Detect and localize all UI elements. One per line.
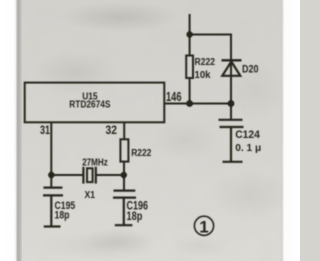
ground (C195): [44, 225, 61, 227]
wire C195 to ground: [50, 195, 52, 226]
svg-text:18p: 18p: [127, 211, 143, 223]
capacitor C196: [114, 190, 136, 192]
svg-text:R222: R222: [131, 147, 151, 159]
svg-text:R222: R222: [195, 57, 216, 68]
wire node146 down to C124: [230, 104, 232, 120]
svg-text:18p: 18p: [55, 210, 70, 222]
junction node pin31-C195: [48, 172, 54, 178]
svg-text:10k: 10k: [195, 69, 211, 81]
svg-text:X1: X1: [85, 190, 96, 201]
wire C196 to ground: [123, 198, 125, 225]
wire pin31 vertical: [50, 123, 52, 188]
crystal X1: [82, 167, 84, 184]
svg-text:C124: C124: [235, 129, 260, 141]
ground (C196): [115, 224, 133, 226]
IC U15 box: [25, 83, 165, 123]
wire pin32 vertical to R222: [123, 123, 125, 141]
wire C124 to ground: [230, 127, 232, 162]
svg-text:32: 32: [106, 123, 118, 137]
junction node 146-D20: [228, 100, 235, 107]
wire between R222 and node 146: [189, 77, 191, 104]
ground (C124): [223, 161, 243, 163]
svg-text:0. 1 μ: 0. 1 μ: [235, 143, 261, 154]
wire crystal horizontal left: [51, 174, 83, 176]
svg-text:D20: D20: [242, 63, 259, 75]
svg-text:31: 31: [40, 125, 50, 137]
svg-text:27MHz: 27MHz: [82, 157, 108, 168]
capacitor C124: [219, 119, 243, 121]
paper mottling: [60, 2, 180, 32]
resistor R222 (pin32) body: [120, 139, 128, 161]
svg-text:RTD2674S: RTD2674S: [69, 99, 110, 110]
wire pin146 horizontal: [164, 103, 231, 105]
junction node top: [186, 31, 192, 37]
circled 1: [194, 216, 213, 235]
wire top vertical feed: [189, 14, 191, 56]
wire crystal horizontal right: [96, 174, 125, 176]
junction node 146-R222: [186, 100, 193, 107]
junction node pin32-C196: [121, 172, 127, 178]
svg-text:146: 146: [166, 89, 182, 104]
svg-text:1: 1: [199, 218, 208, 237]
diode D20: [222, 59, 242, 61]
wire R222 to node: [123, 162, 125, 190]
wire top horizontal to diode branch: [190, 35, 231, 104]
resistor R222 10k body: [186, 56, 193, 79]
capacitor C195: [43, 187, 62, 189]
